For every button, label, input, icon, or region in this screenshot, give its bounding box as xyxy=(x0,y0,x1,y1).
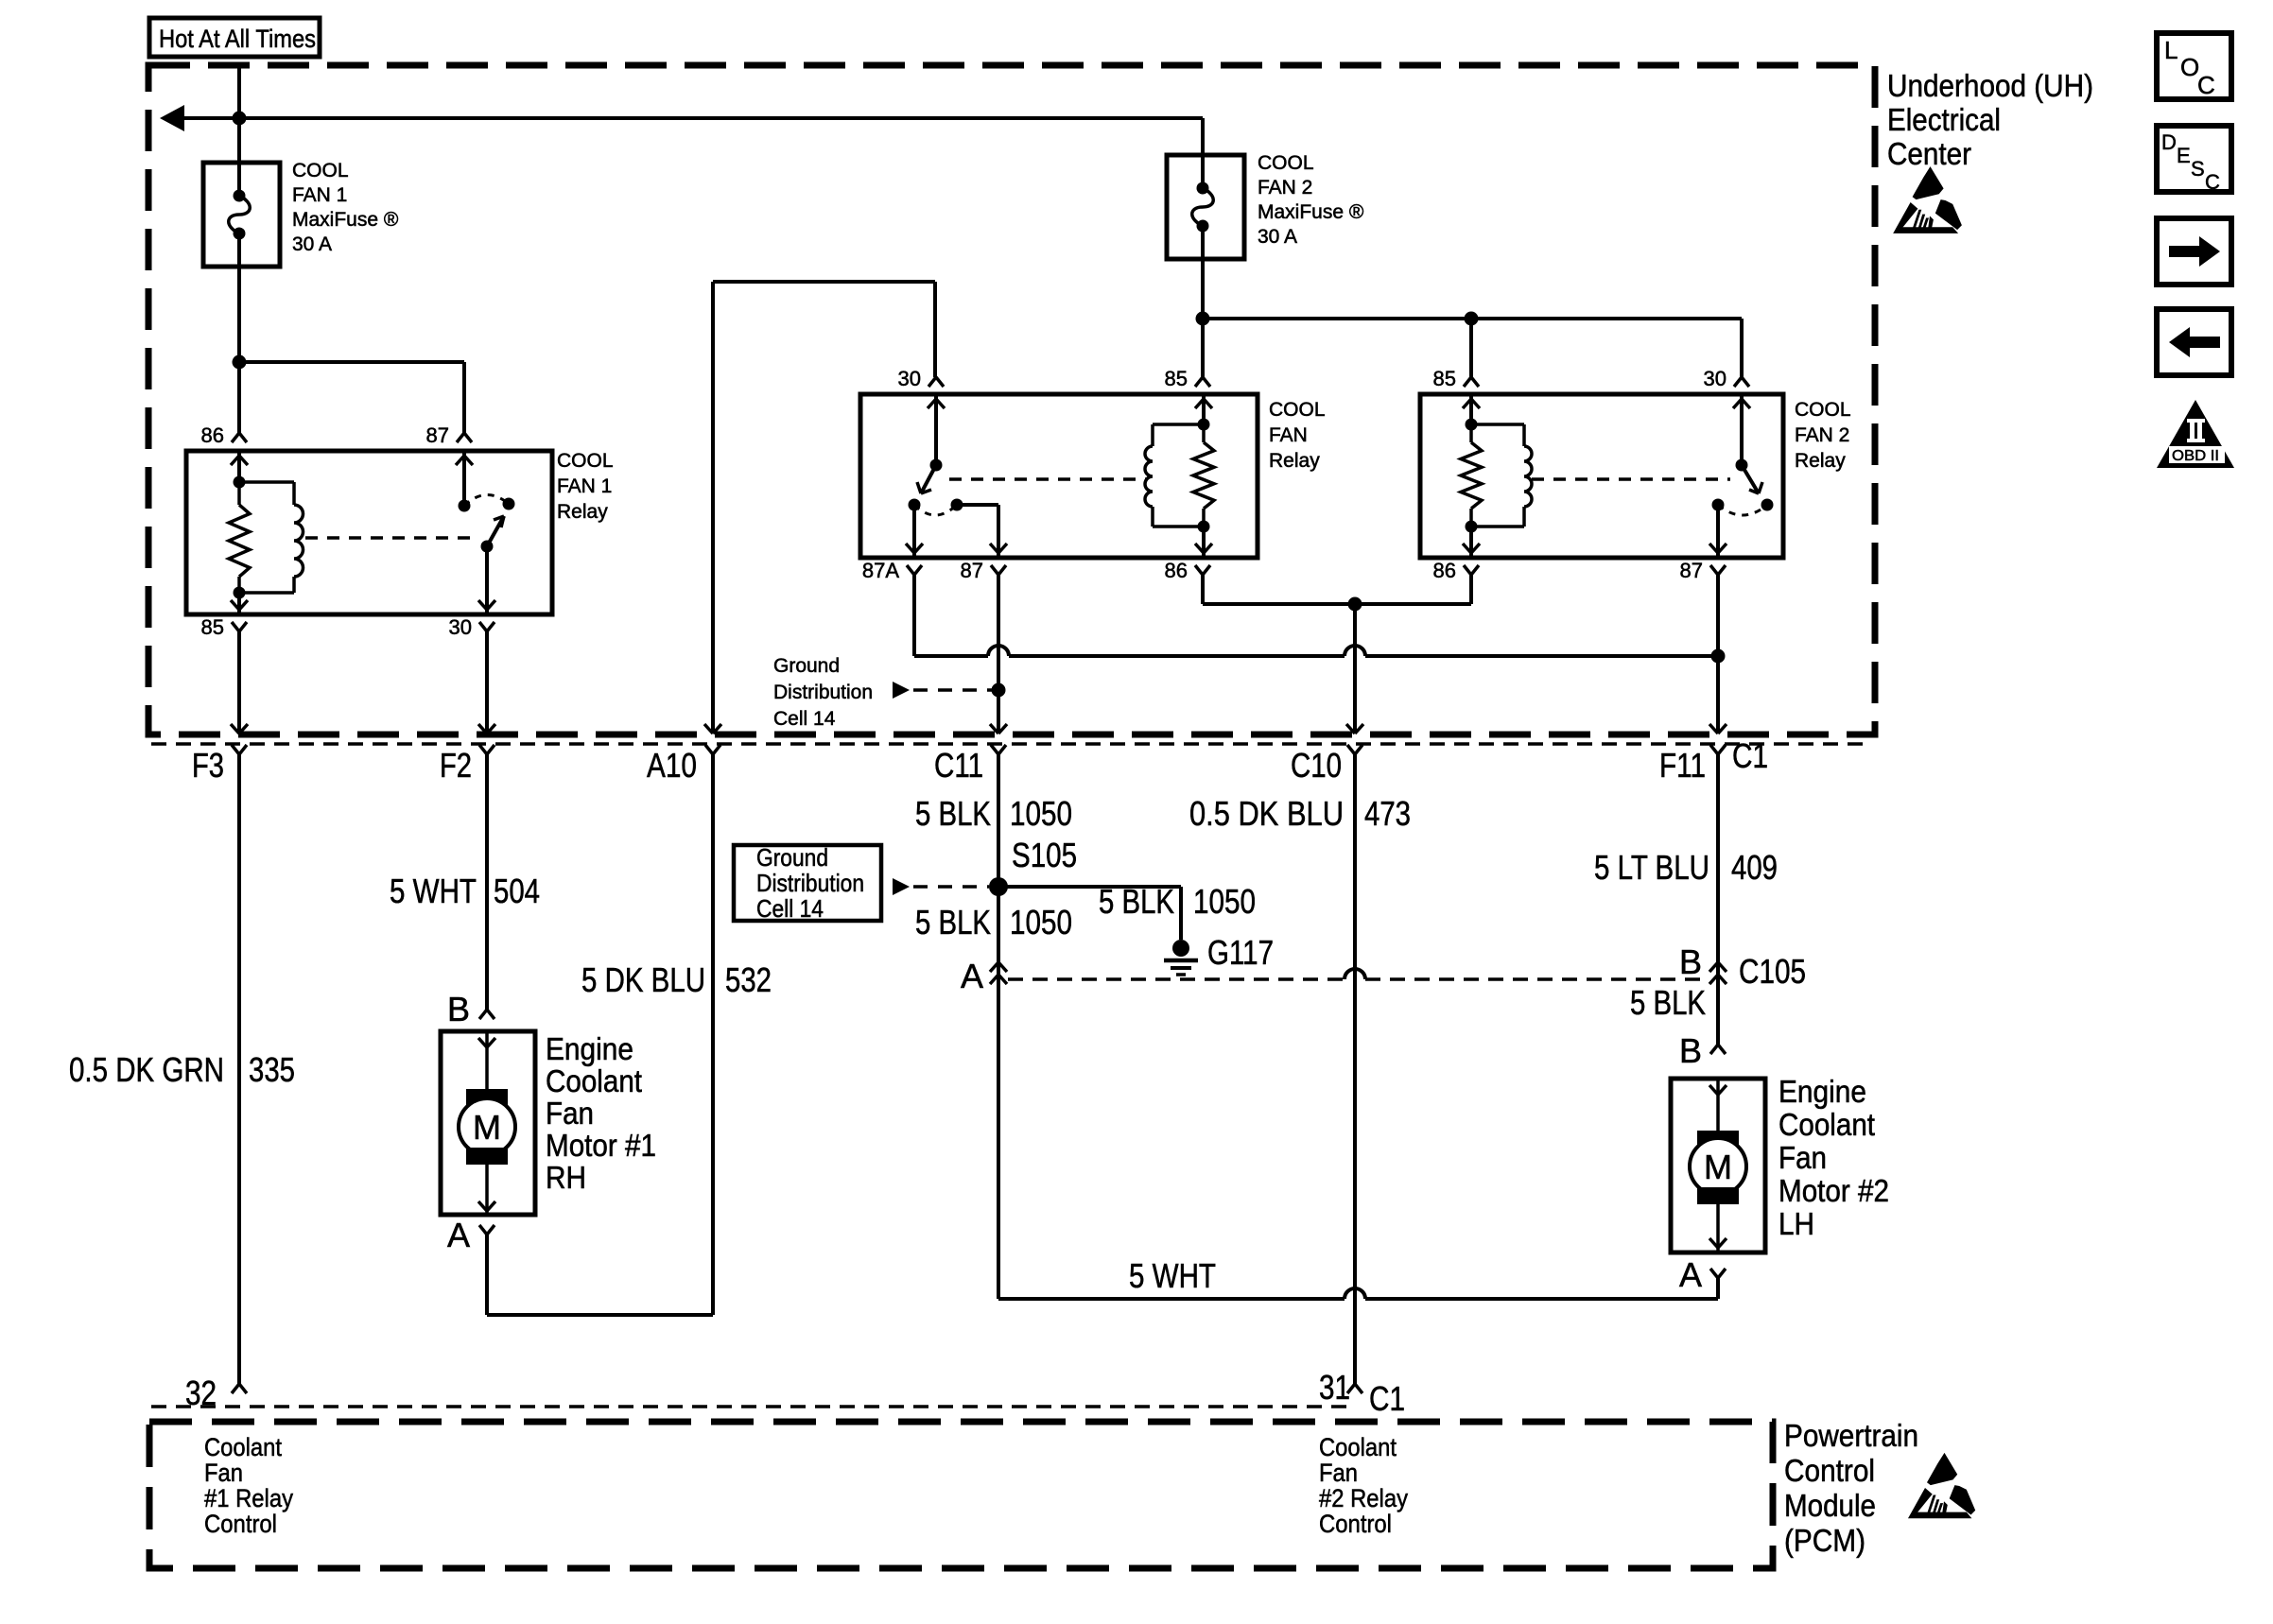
svg-text:85: 85 xyxy=(1165,367,1188,390)
svg-text:A10: A10 xyxy=(647,746,697,785)
svg-text:Relay: Relay xyxy=(557,501,608,523)
svg-text:532: 532 xyxy=(725,960,772,999)
svg-text:FAN 2: FAN 2 xyxy=(1258,177,1312,199)
svg-text:C10: C10 xyxy=(1291,746,1342,785)
svg-text:FAN 1: FAN 1 xyxy=(557,475,612,497)
svg-text:COOL: COOL xyxy=(1269,399,1326,421)
svg-text:5 WHT: 5 WHT xyxy=(390,872,477,910)
svg-text:MaxiFuse ®: MaxiFuse ® xyxy=(292,209,399,231)
svg-text:5 LT BLU: 5 LT BLU xyxy=(1594,848,1709,887)
svg-text:86: 86 xyxy=(201,423,224,447)
svg-text:87: 87 xyxy=(426,423,449,447)
svg-text:85: 85 xyxy=(1433,367,1456,390)
svg-text:Control: Control xyxy=(204,1510,277,1538)
svg-text:30: 30 xyxy=(449,615,472,639)
svg-text:B: B xyxy=(1679,1031,1702,1070)
svg-text:A: A xyxy=(447,1216,470,1254)
svg-text:Fan: Fan xyxy=(204,1459,243,1487)
svg-text:Engine: Engine xyxy=(1778,1074,1866,1109)
svg-text:Distribution: Distribution xyxy=(773,682,873,703)
svg-text:L: L xyxy=(2164,36,2178,64)
svg-text:Center: Center xyxy=(1887,136,1971,171)
svg-text:Hot At All Times: Hot At All Times xyxy=(159,25,316,53)
svg-text:Motor #2: Motor #2 xyxy=(1778,1173,1889,1208)
svg-text:30: 30 xyxy=(1704,367,1726,390)
svg-text:Engine: Engine xyxy=(546,1031,633,1066)
svg-text:S105: S105 xyxy=(1012,836,1077,874)
svg-text:COOL: COOL xyxy=(1795,399,1851,421)
svg-text:Control: Control xyxy=(1784,1453,1875,1488)
svg-text:5 BLK: 5 BLK xyxy=(915,903,991,942)
svg-text:86: 86 xyxy=(1433,559,1456,582)
svg-text:87: 87 xyxy=(1680,559,1703,582)
svg-text:FAN: FAN xyxy=(1269,424,1308,446)
svg-text:5 BLK: 5 BLK xyxy=(1630,983,1706,1022)
svg-text:A: A xyxy=(1679,1255,1702,1294)
svg-text:Powertrain: Powertrain xyxy=(1784,1418,1918,1453)
svg-text:1050: 1050 xyxy=(1193,882,1256,921)
svg-text:30: 30 xyxy=(898,367,921,390)
svg-text:Module: Module xyxy=(1784,1488,1876,1523)
svg-text:Fan: Fan xyxy=(1319,1459,1358,1487)
svg-text:0.5 DK BLU: 0.5 DK BLU xyxy=(1189,794,1344,833)
svg-text:COOL: COOL xyxy=(292,160,349,181)
svg-text:B: B xyxy=(1679,942,1702,981)
svg-text:F2: F2 xyxy=(440,746,472,785)
svg-text:A: A xyxy=(961,957,983,995)
svg-text:S: S xyxy=(2191,157,2205,181)
svg-text:Cell 14: Cell 14 xyxy=(756,894,824,923)
svg-text:5 BLK: 5 BLK xyxy=(1099,882,1174,921)
svg-text:(PCM): (PCM) xyxy=(1784,1523,1865,1558)
svg-text:335: 335 xyxy=(249,1050,295,1089)
svg-text:M: M xyxy=(1704,1148,1732,1186)
svg-text:Motor #1: Motor #1 xyxy=(546,1128,656,1163)
svg-text:Ground: Ground xyxy=(756,843,828,872)
svg-text:C11: C11 xyxy=(934,746,983,785)
svg-text:5 BLK: 5 BLK xyxy=(915,794,991,833)
svg-text:#1 Relay: #1 Relay xyxy=(204,1484,293,1512)
svg-text:F11: F11 xyxy=(1659,746,1706,785)
svg-text:Control: Control xyxy=(1319,1510,1392,1538)
svg-text:B: B xyxy=(447,990,470,1028)
svg-text:G117: G117 xyxy=(1207,933,1274,972)
svg-text:86: 86 xyxy=(1165,559,1188,582)
svg-text:RH: RH xyxy=(546,1160,586,1195)
svg-text:Coolant: Coolant xyxy=(1319,1433,1397,1461)
svg-text:Coolant: Coolant xyxy=(1778,1107,1875,1142)
svg-text:473: 473 xyxy=(1364,794,1411,833)
svg-text:Relay: Relay xyxy=(1269,450,1320,472)
svg-text:0.5 DK GRN: 0.5 DK GRN xyxy=(69,1050,224,1089)
svg-text:C: C xyxy=(2197,71,2215,99)
svg-text:Fan: Fan xyxy=(1778,1140,1827,1175)
svg-text:409: 409 xyxy=(1731,848,1778,887)
svg-text:E: E xyxy=(2177,144,2191,167)
svg-text:FAN 2: FAN 2 xyxy=(1795,424,1849,446)
svg-text:LH: LH xyxy=(1778,1206,1814,1241)
svg-text:1050: 1050 xyxy=(1010,903,1072,942)
svg-text:MaxiFuse ®: MaxiFuse ® xyxy=(1258,201,1364,223)
svg-text:Cell 14: Cell 14 xyxy=(773,708,836,730)
svg-text:Fan: Fan xyxy=(546,1096,594,1131)
svg-text:FAN 1: FAN 1 xyxy=(292,184,347,206)
svg-text:C1: C1 xyxy=(1369,1379,1405,1418)
svg-text:Electrical: Electrical xyxy=(1887,102,2001,137)
svg-text:C105: C105 xyxy=(1739,952,1806,991)
svg-text:F3: F3 xyxy=(192,746,224,785)
svg-text:COOL: COOL xyxy=(557,450,614,472)
svg-text:#2 Relay: #2 Relay xyxy=(1319,1484,1408,1512)
svg-text:87A: 87A xyxy=(862,559,899,582)
svg-text:5 WHT: 5 WHT xyxy=(1129,1256,1216,1295)
svg-text:30 A: 30 A xyxy=(1258,226,1297,248)
svg-text:30 A: 30 A xyxy=(292,233,332,255)
svg-text:Coolant: Coolant xyxy=(204,1433,282,1461)
svg-text:Ground: Ground xyxy=(773,655,840,677)
svg-text:87: 87 xyxy=(961,559,983,582)
svg-text:C: C xyxy=(2205,170,2220,194)
svg-text:Relay: Relay xyxy=(1795,450,1846,472)
svg-text:D: D xyxy=(2161,130,2177,154)
svg-text:1050: 1050 xyxy=(1010,794,1072,833)
svg-text:Underhood (UH): Underhood (UH) xyxy=(1887,68,2093,103)
svg-text:M: M xyxy=(473,1108,501,1147)
svg-text:5 DK BLU: 5 DK BLU xyxy=(581,960,705,999)
svg-text:Distribution: Distribution xyxy=(756,869,864,897)
svg-text:31: 31 xyxy=(1319,1368,1350,1407)
svg-text:504: 504 xyxy=(494,872,540,910)
svg-text:85: 85 xyxy=(201,615,224,639)
svg-text:COOL: COOL xyxy=(1258,152,1314,174)
svg-text:OBD II: OBD II xyxy=(2172,448,2219,464)
svg-text:C1: C1 xyxy=(1732,736,1768,775)
svg-text:Coolant: Coolant xyxy=(546,1063,642,1098)
